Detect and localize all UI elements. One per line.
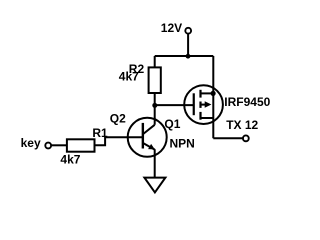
IRF9450 body arrow shaft <box>201 104 206 106</box>
junction dot inside IRF9450 <box>211 91 216 96</box>
wire: MOSFET vertical source/drain lead <box>212 56 214 138</box>
junction dot on top rail <box>186 54 191 59</box>
wire: R2 top lead <box>154 56 156 67</box>
svg-text:4k7: 4k7 <box>60 153 80 167</box>
terminal key <box>45 143 51 149</box>
wire: drain to TX terminal <box>213 137 242 139</box>
transistor Q1 body circle <box>128 118 167 157</box>
svg-text:IRF9450: IRF9450 <box>224 95 270 109</box>
svg-text:12V: 12V <box>161 21 182 35</box>
transistor IRF9450 body circle <box>184 85 223 124</box>
IRF9450 body arrowhead <box>205 101 212 107</box>
svg-text:TX 12: TX 12 <box>226 118 258 132</box>
junction node: R2 / Q1 collector / gate <box>152 103 157 108</box>
IRF9450 gate bar <box>193 93 195 115</box>
IRF9450 channel bar (source segment) <box>199 112 201 120</box>
svg-text:key: key <box>21 136 41 150</box>
Q1 base bar <box>142 123 144 149</box>
resistor R1 <box>67 139 95 151</box>
terminal TX 12 <box>243 135 249 141</box>
wire: R2 bottom lead <box>154 93 156 106</box>
wire: 12V top rail horizontal <box>155 55 214 57</box>
terminal 12V <box>185 28 191 34</box>
IRF9450 source connection <box>201 92 214 94</box>
svg-text:Q2: Q2 <box>110 111 126 125</box>
svg-text:4k7: 4k7 <box>119 70 139 84</box>
IRF9450 channel bar (drain segment) <box>199 90 201 98</box>
resistor R2 <box>149 67 161 93</box>
wire: 12V terminal lead <box>187 34 189 56</box>
Q1 emitter arrowhead <box>148 144 155 150</box>
svg-text:NPN: NPN <box>170 136 195 150</box>
wire: Q1 emitter lead <box>154 149 156 177</box>
IRF9450 channel bar (body segment) <box>199 102 201 108</box>
Q1 collector diagonal <box>143 125 155 134</box>
svg-text:Q1: Q1 <box>164 117 180 131</box>
wire: Q1 collector lead <box>154 105 156 124</box>
Q1 emitter diagonal <box>143 143 155 150</box>
wire: node to MOSFET gate <box>155 104 194 106</box>
wire: key terminal to R1 <box>51 144 67 146</box>
wire: R1 to Q1 base (with jog) <box>95 137 143 145</box>
IRF9450 drain connection <box>201 117 214 119</box>
ground <box>144 178 165 193</box>
